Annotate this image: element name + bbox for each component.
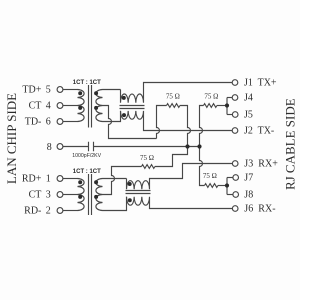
J1 terminal: [232, 80, 238, 86]
junction dot rail end R2/R4: [197, 144, 201, 148]
wire T2 secondary bottom to choke CM2: [103, 197, 127, 211]
transformer T2 core: [89, 174, 92, 215]
resistor R4 75ohm left leg from rail with hop over J3 line: [200, 147, 205, 186]
svg-text:1: 1: [46, 174, 51, 185]
CM2 bottom winding polarity dot: [128, 198, 132, 202]
J7/J8 stub vertical: [226, 178, 228, 195]
T1 secondary polarity dot bottom: [94, 106, 98, 110]
pin 4 terminal CT: [57, 103, 63, 109]
J8 stub: [227, 194, 233, 196]
T2 primary polarity dot bottom: [78, 195, 82, 199]
J5 terminal: [232, 112, 238, 118]
J6 terminal: [232, 206, 238, 212]
common-mode choke CM1 top winding and wire to J1: [121, 83, 233, 103]
svg-text:TX+: TX+: [258, 78, 277, 89]
T1 primary polarity dot top: [78, 91, 82, 95]
svg-text:J6: J6: [244, 204, 253, 215]
pin 1 terminal RD+: [57, 176, 63, 182]
svg-text:75 Ω: 75 Ω: [203, 172, 217, 180]
wire pin1 to T2 primary: [63, 178, 78, 180]
choke CM2 core: [126, 191, 151, 194]
junction dot J7/J8: [225, 183, 229, 187]
transformer T1 core: [89, 85, 92, 128]
pin 8 terminal: [57, 144, 63, 150]
svg-text:5: 5: [46, 85, 51, 96]
T2 secondary polarity dot bottom: [94, 195, 98, 199]
svg-text:TD+: TD+: [22, 85, 41, 96]
wire T1 secondary bottom to choke CM1: [103, 111, 121, 122]
wire T2 secondary top to choke CM2: [103, 178, 127, 180]
svg-text:LAN CHIP SIDE: LAN CHIP SIDE: [4, 93, 19, 184]
pin 3 terminal CT: [57, 192, 63, 198]
J7 terminal: [233, 175, 239, 181]
transformer T2 primary winding: [78, 179, 85, 211]
junction dot J4/J5: [225, 103, 229, 107]
capacitor C1 1000pF/2KV: [89, 142, 94, 151]
svg-text:3: 3: [46, 190, 51, 201]
common-mode choke CM1 bottom winding and wire to J2: [121, 111, 233, 131]
svg-text:75 Ω: 75 Ω: [204, 93, 218, 101]
transformer T2 secondary winding: [96, 179, 103, 211]
svg-text:CT: CT: [29, 101, 42, 112]
J4/J5 stub vertical: [226, 98, 228, 115]
svg-text:1CT : 1CT: 1CT : 1CT: [73, 169, 101, 175]
wire pin4 to T1 primary CT: [63, 105, 78, 107]
resistor R2 75ohm left leg with hop over J2 line: [200, 106, 204, 147]
wire T1 secondary center tap with hop: [103, 106, 157, 139]
svg-text:2: 2: [46, 206, 51, 217]
wire pin5 to T1 primary: [63, 89, 78, 91]
CM1 top winding polarity dot: [122, 96, 126, 100]
resistor R2 75ohm body: [204, 104, 217, 108]
svg-text:J2: J2: [244, 126, 253, 137]
svg-text:J1: J1: [244, 78, 253, 89]
common termination rail from C1: [94, 146, 200, 148]
T1 primary polarity dot bottom: [78, 106, 82, 110]
wire pin8 to capacitor C1: [63, 146, 89, 148]
svg-text:6: 6: [46, 117, 51, 128]
choke CM1 core: [120, 106, 145, 109]
resistor R3 75ohm body: [142, 165, 155, 169]
pin 2 terminal RD-: [57, 208, 63, 214]
svg-text:RD+: RD+: [22, 174, 42, 185]
resistor R1 75ohm body: [167, 104, 180, 108]
svg-text:1000pF/2KV: 1000pF/2KV: [72, 153, 101, 159]
wire T1 secondary top to choke CM1: [103, 89, 121, 91]
J3 terminal: [232, 161, 238, 167]
resistor R1 right leg to common rail with hop over J2 line: [180, 106, 191, 147]
svg-text:CT: CT: [29, 190, 42, 201]
T2 secondary polarity dot top: [94, 180, 98, 184]
svg-text:J8: J8: [244, 190, 253, 201]
common-mode choke CM2 top winding and wire to J3: [127, 164, 233, 190]
svg-text:J3: J3: [244, 159, 253, 170]
resistor R4 75ohm body: [205, 184, 218, 188]
resistor R3 right leg up to common rail: [155, 147, 188, 167]
svg-text:J4: J4: [244, 93, 253, 104]
wire T2 secondary center tap with hop, up to R3: [103, 167, 142, 195]
svg-text:J5: J5: [244, 110, 253, 121]
wire pin6 to T1 primary: [63, 121, 78, 123]
svg-text:RD-: RD-: [24, 206, 41, 217]
pin 5 terminal TD+: [57, 87, 63, 93]
svg-text:RX+: RX+: [258, 159, 278, 170]
common-mode choke CM2 bottom winding and wire to J6: [127, 197, 233, 209]
svg-text:75 Ω: 75 Ω: [166, 92, 180, 100]
svg-text:TX-: TX-: [258, 126, 275, 137]
svg-text:TD-: TD-: [25, 117, 42, 128]
resistor R4 right lead to J7/J8 junction: [218, 185, 227, 187]
junction dot rail R1: [185, 144, 189, 148]
CM2 top winding polarity dot: [128, 182, 132, 186]
svg-text:J7: J7: [244, 173, 253, 184]
J5 stub: [227, 114, 232, 116]
svg-text:RX-: RX-: [258, 204, 275, 215]
pin 6 terminal TD-: [57, 119, 63, 125]
resistor R1 75ohm left leg with hop over J2 line: [157, 106, 167, 139]
J4 terminal: [232, 95, 238, 101]
J2 terminal: [232, 128, 238, 134]
svg-text:75 Ω: 75 Ω: [140, 154, 154, 162]
resistor R2 right lead to J4/J5 junction: [217, 105, 227, 107]
transformer T1 primary winding: [78, 90, 85, 122]
svg-text:1CT : 1CT: 1CT : 1CT: [73, 80, 101, 86]
J8 terminal: [233, 192, 239, 198]
transformer T1 secondary winding: [96, 90, 103, 122]
CM1 bottom winding polarity dot: [122, 113, 126, 117]
svg-text:RJ CABLE SIDE: RJ CABLE SIDE: [283, 98, 298, 190]
J4 stub: [227, 97, 232, 99]
J7 stub: [227, 177, 233, 179]
svg-text:4: 4: [46, 101, 51, 112]
T2 primary polarity dot top: [78, 180, 82, 184]
T1 secondary polarity dot top: [94, 91, 98, 95]
wire pin3 to T2 primary CT: [63, 194, 78, 196]
svg-text:8: 8: [47, 142, 52, 153]
wire pin2 to T2 primary: [63, 210, 78, 212]
